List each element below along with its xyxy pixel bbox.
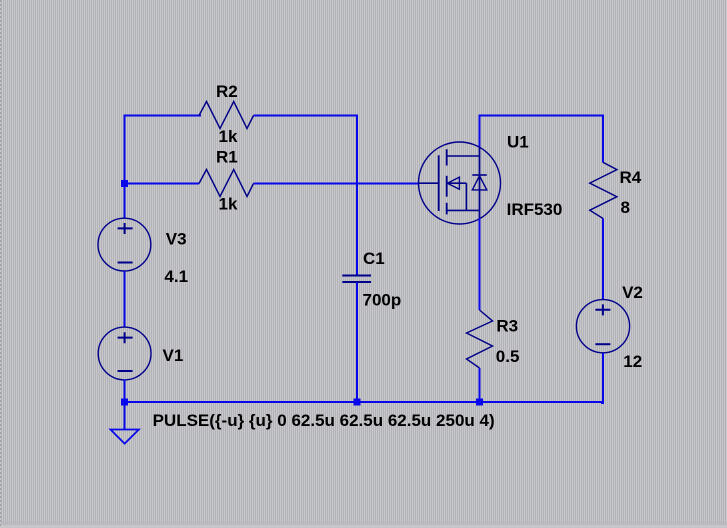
resistor R4 [590,162,617,218]
U1 body diode triangle [472,176,487,190]
svg-text:V3: V3 [166,229,187,248]
U1 channel dash top [446,149,448,165]
wire ground stub [124,405,126,430]
V2 minus sign [595,343,610,345]
svg-text:1k: 1k [219,195,238,214]
wire C1 vertical top (from top wire through R1 row to cap plate) [356,116,358,276]
wire V2 bottom to bottom-right corner [601,353,603,403]
svg-text:R3: R3 [496,317,518,336]
wire bottom horizontal [125,401,604,403]
svg-text:V1: V1 [163,346,184,365]
voltage source V1 circle [98,327,151,380]
svg-text:700p: 700p [363,291,402,310]
svg-text:R2: R2 [216,82,238,101]
wire R4 bottom to V2 top [602,219,604,301]
ground symbol [111,430,139,444]
U1 body arrow line [447,182,466,184]
wire MOSFET drain up to top wire [479,115,481,149]
V3 minus sign [118,262,133,264]
U1 gate bar [438,155,440,211]
svg-text:V2: V2 [622,283,643,302]
svg-text:8: 8 [621,198,630,217]
U1 arrow-to-source vertical [465,183,467,210]
wire MOSFET source down to R3 [479,218,481,310]
U1 body diode cathode bar [472,174,487,176]
wire C1 bottom plate to bottom wire [356,283,358,403]
wire top-right horizontal (drain to R4) [480,115,604,117]
svg-text:12: 12 [623,352,642,371]
svg-text:C1: C1 [363,249,385,268]
resistor R3 [467,310,493,368]
voltage source V3 circle [98,218,151,271]
node R3 bottom junction [476,399,483,406]
wire left vertical (top corner down to V3 plus pin) [124,115,126,219]
U1 body arrow head [447,177,459,189]
wire right vertical top (top wire to R4) [602,115,604,163]
U1 drain bar [447,155,480,157]
V3 plus sign [118,223,133,234]
node ground junction [121,399,128,406]
svg-text:R1: R1 [216,148,238,167]
resistor R1 [199,170,254,197]
resistor R2 [199,102,254,129]
voltage source V2 circle [576,300,629,353]
wire R1 row left (node to R1 left lead) [125,183,200,185]
U1 channel dash bottom [446,203,448,215]
wire between V3 and V1 [124,271,126,327]
node C1 bottom junction [354,399,361,406]
U1 channel dash middle [446,176,448,197]
wire top-left horizontal (node to R2 left lead) [125,115,202,117]
wire V1 bottom to ground node [124,380,126,403]
V1 minus sign [118,370,133,372]
node junction left (R1 row / V3) [121,180,128,187]
svg-text:0.5: 0.5 [496,347,520,366]
wire R1 right lead to MOSFET gate [254,183,420,185]
U1 source bar [447,209,480,211]
capacitor C1 bottom plate [342,281,371,283]
svg-text:U1: U1 [507,133,529,152]
svg-text:R4: R4 [620,168,642,187]
svg-text:1k: 1k [219,127,238,146]
wire R2 right lead to C1 corner [254,115,359,117]
U1 gate lead [419,182,439,184]
V2 plus sign [595,304,610,315]
op MOSFET U1 circle [419,142,501,224]
svg-text:IRF530: IRF530 [507,200,563,219]
U1 internal drain-source vertical [479,147,481,219]
svg-text:PULSE({-u} {u} 0 62.5u 62.5u 6: PULSE({-u} {u} 0 62.5u 62.5u 62.5u 250u … [153,411,495,430]
capacitor C1 top plate [342,275,371,277]
V1 plus sign [118,332,133,343]
wire R3 bottom lead [479,368,481,402]
svg-text:4.1: 4.1 [164,267,188,286]
